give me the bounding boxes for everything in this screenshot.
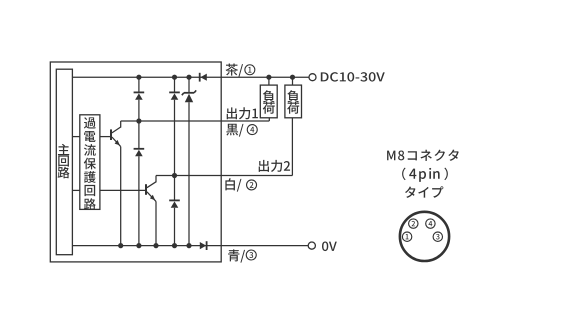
label 負荷 (load 1) (263, 90, 275, 102)
zener diode ZD1 (column C) (184, 92, 194, 94)
junction dot node2 (172, 173, 177, 178)
junction dot top rail x=268.9 (266, 75, 271, 80)
main circuit block 主回路 box (56, 69, 72, 255)
M8 connector body circle (400, 212, 449, 261)
wire output2 node to load (白/②) (156, 175, 292, 177)
wire column C lower segment (188, 102, 190, 245)
wire Q2 emitter to bottom rail (155, 201, 157, 245)
junction dot top rail x=138.9 (136, 75, 141, 80)
overcurrent protection block 過電流保護回路 box (80, 115, 100, 210)
label 白/② (white wire) (225, 178, 241, 191)
diode D5 (reverse protection, top rail) (199, 73, 201, 82)
label 過電流保護回路 (vertical) (84, 117, 96, 128)
connector pin ③ (433, 232, 442, 241)
terminal DC10-30V (open circle) (309, 74, 316, 81)
junction dot bottom rail x=120.7 (118, 243, 123, 248)
junction dot bottom rail x=189.0 (186, 243, 191, 248)
diode D1 (column A upper) (134, 91, 145, 93)
label DC10-30V (321, 72, 385, 81)
wire stub load1 top (268, 77, 270, 85)
wire column A middle segment (138, 100, 140, 149)
label （4pin） (402, 168, 406, 180)
wire 主回路 to protection box (lower) (72, 189, 79, 191)
label 主回路 (vertical) (58, 144, 69, 155)
diode D4 (column B lower) (169, 199, 180, 201)
diode D6 (reverse protection, bottom rail) (200, 242, 206, 249)
transistor Q2 (NPN) (145, 184, 147, 195)
wire 主回路 to protection box (upper) (72, 136, 79, 138)
label 出力2 (259, 160, 290, 172)
diode D2 (column A lower) (134, 148, 145, 150)
wire protection box to Q1 base (100, 136, 110, 138)
outer enclosure box (50, 62, 221, 262)
junction dot top rail x=174.5 (172, 75, 177, 80)
wire column B lower segment (174, 208, 176, 246)
junction dot bottom rail x=138.9 (136, 243, 141, 248)
wire column B upper segment (174, 77, 176, 92)
transistor Q1 (NPN) (110, 129, 112, 140)
junction dot top rail x=292.5 (290, 75, 295, 80)
junction dot top rail x=189.0 (186, 75, 191, 80)
junction dot node1 (136, 118, 141, 123)
load box 2 負荷 (285, 85, 302, 118)
wire top rail (+V) (72, 76, 309, 78)
label 黒/④ (black wire) (226, 124, 243, 137)
wire column B middle segment (174, 100, 176, 201)
wire protection box to Q2 base (100, 189, 145, 191)
junction dot bottom rail x=174.5 (172, 243, 177, 248)
wire column C upper segment (188, 77, 190, 93)
wire output1 node to load (黒/④) (121, 120, 270, 122)
wire column A upper segment (138, 77, 140, 92)
connector pin ② (409, 219, 418, 228)
wire stub load1 bottom (268, 118, 270, 121)
wire column A lower segment (138, 156, 140, 245)
connector pin ① (402, 232, 411, 241)
label 0V (322, 241, 337, 251)
label 出力1 (227, 107, 258, 119)
load box 1 負荷 (260, 85, 277, 118)
label タイプ (405, 186, 443, 198)
label M8コネクタ (387, 149, 459, 160)
wire Q1 emitter to bottom rail (120, 147, 122, 246)
label 青/③ (blue wire) (228, 249, 245, 262)
wire bottom rail (0V) (72, 245, 308, 247)
terminal 0V (open circle) (308, 242, 315, 249)
wire stub load2 bottom (291, 118, 293, 176)
label 茶/① (brown wire) (226, 64, 243, 77)
junction dot bottom rail x=156.0 (153, 243, 158, 248)
diode D3 (column B upper) (169, 91, 180, 93)
label 負荷 (load 2) (287, 90, 299, 102)
connector pin ④ (426, 219, 435, 228)
wire stub load2 top (292, 77, 294, 85)
